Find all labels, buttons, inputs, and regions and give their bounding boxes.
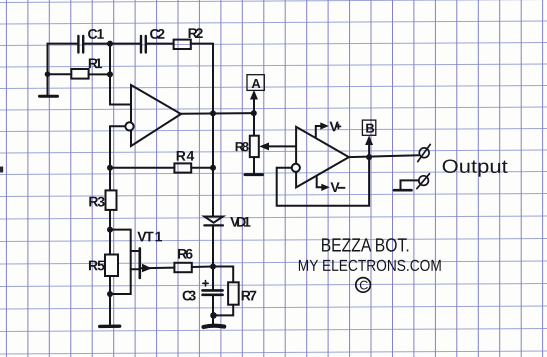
node R6/R7 junction [210,264,216,270]
op-amp U1 inverting bubble [125,122,133,130]
resistor R3 [106,190,117,210]
resistor R1 [71,69,88,79]
svg-text:A: A [251,76,261,91]
C3 plus sign [203,281,208,286]
node R4 right junction [210,165,216,171]
wire R4 right [191,167,213,169]
ground G1 top-left [40,95,58,98]
node C1/C2 junction [107,41,113,47]
wire output terminal 2 [401,180,419,189]
node R4 left junction [107,165,113,171]
svg-text:C1: C1 [87,26,104,42]
wire middle rail VD1 to C3 [212,225,214,290]
op-amp U2 [296,127,349,188]
svg-text:BEZZA BOT.: BEZZA BOT. [321,236,410,257]
output terminal 1 [418,144,431,161]
svg-text:R1: R1 [88,55,103,71]
node VT1 gate junction [107,227,113,233]
svg-text:C2: C2 [149,26,165,42]
node A box [247,75,264,91]
R8 wiper arrow to U2 input [261,143,297,149]
node VT1 source junction [107,291,113,297]
wire U2 output [349,155,420,157]
diode VD1 [204,217,223,226]
wire R4 left [110,167,174,169]
resistor R2 [174,40,191,49]
node left branch junction [45,71,51,77]
svg-text:R4: R4 [176,148,195,164]
resistor R8 [250,136,259,157]
U2 V+ power pin [316,123,328,137]
resistor R7 [228,282,239,304]
U2 V- power pin [317,177,329,190]
copyright symbol [356,278,371,293]
svg-text:R2: R2 [188,25,204,41]
svg-text:B: B [365,121,374,136]
output terminal 2 [417,174,430,189]
node B box [362,120,375,135]
node R1 right junction [107,71,113,77]
wire R7 bottom [213,305,233,316]
node A arrow [251,91,257,113]
wire R8 top lead [253,113,255,136]
op-amp U2 inverting bubble [292,164,300,172]
svg-text:R6: R6 [177,246,193,262]
wire op-amp inverting input + left rail lower [110,126,126,326]
svg-text:R7: R7 [241,287,257,303]
wire C2 to R2 [147,43,174,45]
wire C1 right [85,43,140,45]
capacitor C2 [141,36,146,53]
svg-text:C: C [359,278,368,292]
svg-text:VT 1: VT 1 [137,228,162,244]
node U1 output / middle rail junction [210,110,216,116]
svg-text:C3: C3 [182,287,196,303]
scan artifact left edge [0,167,3,173]
svg-text:VD1: VD1 [230,214,251,230]
svg-text:Output: Output [442,157,509,178]
ground G5 output [394,189,412,192]
capacitor C3 [203,290,223,294]
resistor R5 [105,255,118,277]
transistor VT1 [131,248,175,278]
wire R2 to middle rail [191,43,213,45]
resistor R4 [174,163,191,172]
wire top-left branch vertical [48,44,78,96]
resistor R6 [174,263,191,272]
node A junction [251,110,257,116]
wire R1 right [89,73,110,75]
wire middle rail top [212,44,214,217]
node C3/R7 bottom junction [210,312,217,319]
ground G2 below R8 [245,173,263,176]
ground G3 bottom left [100,325,120,329]
wire C3 to ground [212,295,214,325]
svg-text:MY ELECTRONS.COM: MY ELECTRONS.COM [298,258,442,275]
wire U2 feedback loop [277,157,369,206]
wire VT1 gate lead [110,230,131,294]
wire R6 right [192,266,213,269]
svg-text:R5: R5 [88,257,105,273]
ground G4 bottom middle [204,326,225,327]
wire R7 branch top [213,267,233,283]
wire U1 output [181,112,254,115]
wire left rail upper + op-amp noninverting input [110,44,131,105]
capacitor C1 [78,36,83,53]
wire R8 bottom lead [253,157,255,173]
svg-text:R8: R8 [235,139,249,154]
svg-text:R3: R3 [88,193,105,209]
wire R1 left [48,73,72,75]
op-amp U1 [131,85,181,146]
node B junction [366,154,372,160]
node B arrow [366,137,372,157]
